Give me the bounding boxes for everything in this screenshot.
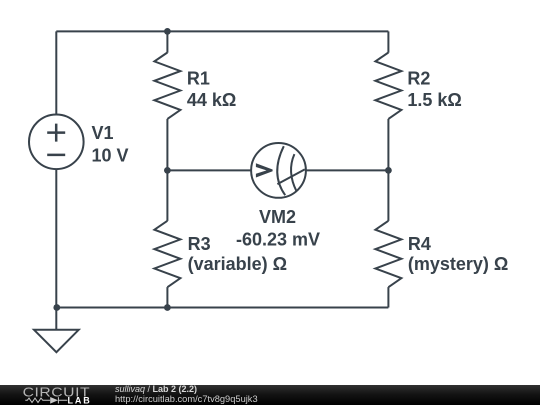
svg-text:R2: R2 <box>407 69 430 89</box>
wire: top rail right segment (node A to R2) <box>167 30 388 32</box>
node: junction top rail / R1 <box>164 28 171 35</box>
svg-text:R4: R4 <box>408 234 431 254</box>
node C: junction R2/R4/voltmeter <box>385 167 392 174</box>
wire: node B to voltmeter left terminal <box>167 169 251 171</box>
svg-text:(variable) Ω: (variable) Ω <box>188 254 287 274</box>
wire: V1 negative terminal down to bottom rail <box>55 169 57 307</box>
wire: voltmeter right terminal to node C <box>306 169 389 171</box>
wire: V1 positive terminal up to top rail <box>55 31 57 114</box>
svg-text:44 kΩ: 44 kΩ <box>187 90 236 110</box>
svg-text:10 V: 10 V <box>92 145 129 165</box>
wire: node B to R3 top <box>166 170 168 221</box>
voltage source V1 <box>29 115 84 170</box>
wire: R3 bottom to bottom rail <box>166 287 168 307</box>
wire: bottom rail <box>56 307 388 309</box>
svg-text:R1: R1 <box>187 69 210 89</box>
node B: junction R1/R3/voltmeter <box>164 167 171 174</box>
svg-text:(mystery) Ω: (mystery) Ω <box>408 254 508 274</box>
svg-text:LAB: LAB <box>68 395 92 405</box>
footer bar <box>0 385 540 405</box>
wire: R1 bottom to node B <box>166 119 168 170</box>
resistor R4 <box>375 221 401 287</box>
svg-text:V1: V1 <box>92 123 114 143</box>
resistor R1 <box>154 53 180 119</box>
svg-text:VM2: VM2 <box>259 207 296 227</box>
wire: top rail left segment (V1 to node A) <box>56 30 167 32</box>
CircuitLab logo <box>0 384 100 405</box>
resistor R3 <box>154 221 180 287</box>
wire: R4 bottom to bottom rail <box>387 287 389 307</box>
wire: R2 bottom to node C <box>387 119 389 170</box>
wire: ground stem <box>55 308 57 331</box>
node: junction bottom rail / ground <box>53 304 60 311</box>
resistor R2 <box>375 53 401 119</box>
ground <box>34 330 79 352</box>
wire: R2 top stub <box>387 31 389 52</box>
svg-text:-60.23 mV: -60.23 mV <box>236 229 320 249</box>
footer attribution text <box>115 384 197 394</box>
node: junction bottom rail / R3 <box>164 304 171 311</box>
voltmeter VM2 <box>251 143 306 198</box>
svg-text:R3: R3 <box>188 234 211 254</box>
wire: node C to R4 top <box>387 170 389 221</box>
svg-text:1.5 kΩ: 1.5 kΩ <box>407 90 461 110</box>
wire: R1 top stub <box>166 31 168 52</box>
